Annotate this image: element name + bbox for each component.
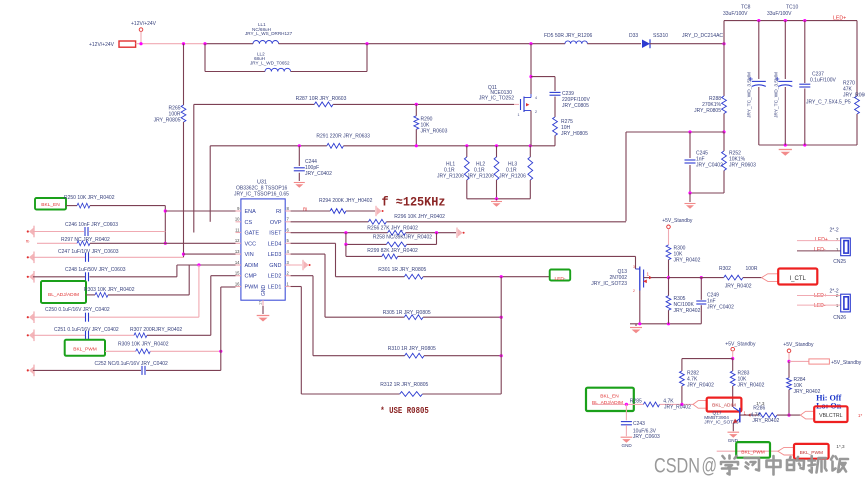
svg-text:TC8: TC8 [741,5,751,11]
svg-text:R250 10K JRY_R0402: R250 10K JRY_R0402 [64,195,115,201]
svg-text:+5V_Standby: +5V_Standby [725,342,756,348]
svg-text:* USE R0805: * USE R0805 [380,405,429,416]
svg-text:LED+: LED+ [814,293,827,299]
svg-text:+12V/+24V: +12V/+24V [89,42,115,48]
svg-text:JRY_R0805: JRY_R0805 [154,117,181,123]
svg-text:LED+: LED+ [833,16,846,22]
svg-text:TC10: TC10 [786,5,798,11]
svg-text:1*: 1* [858,413,862,418]
svg-text:JRY_C0402: JRY_C0402 [696,163,723,169]
svg-text:R307 200RJRY_R0402: R307 200RJRY_R0402 [130,327,182,333]
svg-text:f ≈125KHz: f ≈125KHz [382,195,446,210]
svg-text:JRY_R0402: JRY_R0402 [752,418,779,424]
svg-text:2: 2 [836,237,839,242]
svg-text:JRY_TC_WD_3.5MM: JRY_TC_WD_3.5MM [774,72,780,118]
svg-text:14: 14 [235,260,240,265]
svg-text:JRY_IC_SOT23: JRY_IC_SOT23 [591,281,627,287]
svg-text:LED4: LED4 [268,241,282,247]
svg-text:BKL_PWM: BKL_PWM [741,450,764,456]
svg-text:JRY_R1206: JRY_R1206 [437,173,464,179]
svg-text:RI: RI [303,207,307,212]
svg-text:C250 0.1uF/16V JRY_C0402: C250 0.1uF/16V JRY_C0402 [45,307,110,313]
svg-text:CN25: CN25 [833,259,846,265]
svg-text:JRY_R0402: JRY_R0402 [674,308,701,314]
svg-text:1: 1 [647,271,650,276]
svg-text:3: 3 [633,265,635,269]
svg-text:JRY_C0402: JRY_C0402 [707,304,734,310]
svg-text:LED3: LED3 [268,252,282,258]
svg-text:JRY_IC_TO252: JRY_IC_TO252 [479,96,514,102]
svg-text:12: 12 [235,238,240,243]
svg-text:R256 27K JHY_R0402: R256 27K JHY_R0402 [367,225,418,231]
svg-text:GND: GND [269,263,281,269]
svg-text:R309 10K JRY_R0402: R309 10K JRY_R0402 [118,341,169,347]
svg-text:FD5 50R JRY_R1206: FD5 50R JRY_R1206 [544,33,592,39]
svg-text:JRY_IC_TSSOP16_0.65: JRY_IC_TSSOP16_0.65 [234,191,289,197]
svg-text:+5V_Standby: +5V_Standby [662,218,693,224]
svg-text:17: 17 [259,301,263,305]
svg-text:R294 200K JHY_H0402: R294 200K JHY_H0402 [319,198,373,204]
svg-text:R297 NC JRY_R0402: R297 NC JRY_R0402 [61,237,110,243]
svg-text:R310 1R JRY_R0805: R310 1R JRY_R0805 [388,346,436,352]
svg-text:JRY_L_WD_T0652: JRY_L_WD_T0652 [250,60,290,65]
svg-text:4.7K: 4.7K [663,398,674,404]
svg-text:VIN: VIN [245,252,254,258]
svg-text:C252 NC/0.1uF/16V JRY_C0402: C252 NC/0.1uF/16V JRY_C0402 [95,361,169,367]
svg-text:R299 82K JRY_R0402: R299 82K JRY_R0402 [367,248,418,254]
svg-text:RI: RI [276,209,282,215]
svg-text:LED-: LED- [814,303,826,309]
svg-text:R291 220R JRY_R0633: R291 220R JRY_R0633 [316,134,370,140]
svg-text:JRY_C0402: JRY_C0402 [305,171,332,177]
svg-text:R258 NC/39K/JRY_R0402: R258 NC/39K/JRY_R0402 [373,235,432,241]
svg-text:BKL_PWM: BKL_PWM [73,347,96,353]
svg-text:R302: R302 [719,266,731,272]
svg-text:100R: 100R [746,266,758,272]
svg-text:LED-: LED- [814,247,826,253]
svg-text:2*-2: 2*-2 [830,228,839,234]
svg-text:CN26: CN26 [833,315,846,321]
svg-text:33uF/100V: 33uF/100V [723,11,748,17]
svg-text:CSDN: CSDN [654,454,700,478]
svg-text:10: 10 [235,217,240,222]
svg-text:CS: CS [245,220,253,226]
svg-text:JRY_R0402: JRY_R0402 [725,284,752,290]
svg-text:JRY_R0603: JRY_R0603 [421,128,448,134]
svg-text:JRY_R1206: JRY_R1206 [499,173,526,179]
svg-text:R296 10K JHY_R0402: R296 10K JHY_R0402 [394,214,445,220]
svg-text:LED1: LED1 [268,285,282,291]
svg-text:1: 1 [518,113,520,117]
svg-text:R286: R286 [753,406,765,412]
svg-text:JRY_R0402: JRY_R0402 [664,405,691,411]
svg-text:1*,3: 1*,3 [836,444,845,449]
svg-text:4: 4 [535,96,537,100]
svg-text:JRY_R060: JRY_R060 [843,92,865,98]
svg-text:+12V/+24V: +12V/+24V [131,21,157,27]
svg-text:C248 1uF/50V JRY_C0603: C248 1uF/50V JRY_C0603 [65,267,126,273]
svg-text:ENA: ENA [245,209,257,215]
svg-text:0.1uF/100V: 0.1uF/100V [810,77,837,83]
svg-text:GATE: GATE [245,231,260,237]
svg-text:BKL_EN: BKL_EN [600,394,619,400]
svg-text:JRY_TC_WD_3.5MM: JRY_TC_WD_3.5MM [747,72,753,118]
svg-text:JRY_IC_SOT23: JRY_IC_SOT23 [704,420,739,426]
svg-text:JRY_R0603: JRY_R0603 [729,163,756,169]
svg-text:R301 1R JRY_R0805: R301 1R JRY_R0805 [378,267,426,273]
svg-text:GND: GND [622,443,633,448]
svg-text:JRY_C0805: JRY_C0805 [562,103,589,109]
svg-text:R285: R285 [630,398,642,404]
svg-text:+5V_Standby: +5V_Standby [831,360,862,366]
svg-text:GND: GND [261,285,267,297]
svg-text:33uF/100V: 33uF/100V [767,11,792,17]
svg-text:BL_ADJ/ADIM: BL_ADJ/ADIM [48,292,79,298]
svg-text:C246 10nF JRY_C0603: C246 10nF JRY_C0603 [65,222,118,228]
svg-text:+5V_Standby: +5V_Standby [783,342,814,348]
svg-text:1: 1 [836,247,839,252]
svg-text:R287 10R JRY_R0603: R287 10R JRY_R0603 [296,96,347,102]
svg-text:VCC: VCC [245,241,257,247]
svg-text:13: 13 [235,249,240,254]
svg-text:C243: C243 [633,421,645,427]
svg-text:JRY_R0402: JRY_R0402 [674,257,701,263]
svg-text:R303 10K JRY_R0402: R303 10K JRY_R0402 [84,287,135,293]
svg-text:JRY_C0603: JRY_C0603 [633,434,660,440]
svg-text:R312 1R JRY_R0805: R312 1R JRY_R0805 [380,382,428,388]
svg-text:BL_ADJ/ADIM: BL_ADJ/ADIM [592,400,623,406]
svg-text:LED2: LED2 [268,274,282,280]
svg-text:ISET: ISET [269,231,282,237]
svg-text:R305 1R JRY_R0805: R305 1R JRY_R0805 [383,310,431,316]
svg-text:SS310: SS310 [653,33,668,39]
svg-text:JRY_H0805: JRY_H0805 [561,131,588,137]
svg-text:2: 2 [633,289,635,293]
svg-text:LED-: LED- [555,276,566,282]
svg-text:I_CTL: I_CTL [790,276,807,282]
svg-text:JRY_R1206: JRY_R1206 [467,173,494,179]
svg-text:15: 15 [235,271,240,276]
svg-text:JRY_R0805: JRY_R0805 [694,108,721,114]
svg-text:D33: D33 [629,33,638,39]
svg-text:JRY_R0402: JRY_R0402 [687,383,714,389]
svg-text:OVP: OVP [270,220,282,226]
svg-text:JRY_C_7.5X4.5_P5: JRY_C_7.5X4.5_P5 [806,99,851,105]
svg-text:CMP: CMP [245,274,258,280]
svg-text:JRY_D_DC214AC: JRY_D_DC214AC [682,33,723,39]
svg-text:BKL_EN: BKL_EN [41,202,60,208]
svg-text:C247 1uF/10V JRY_C0603: C247 1uF/10V JRY_C0603 [58,249,119,255]
svg-text:JRY_R0402: JRY_R0402 [738,383,765,389]
svg-text:VBLCTRL: VBLCTRL [819,413,842,419]
svg-text:JRY_L_WS_DRRH127: JRY_L_WS_DRRH127 [245,31,293,36]
svg-text:@: @ [702,454,718,478]
svg-text:16: 16 [235,281,240,286]
svg-text:2: 2 [535,110,537,114]
svg-text:C251 0.1uF/16V JRY_C0402: C251 0.1uF/16V JRY_C0402 [54,327,119,333]
svg-text:PWM: PWM [245,285,259,291]
svg-text:ADIM: ADIM [245,263,259,269]
svg-text:11: 11 [235,227,240,232]
